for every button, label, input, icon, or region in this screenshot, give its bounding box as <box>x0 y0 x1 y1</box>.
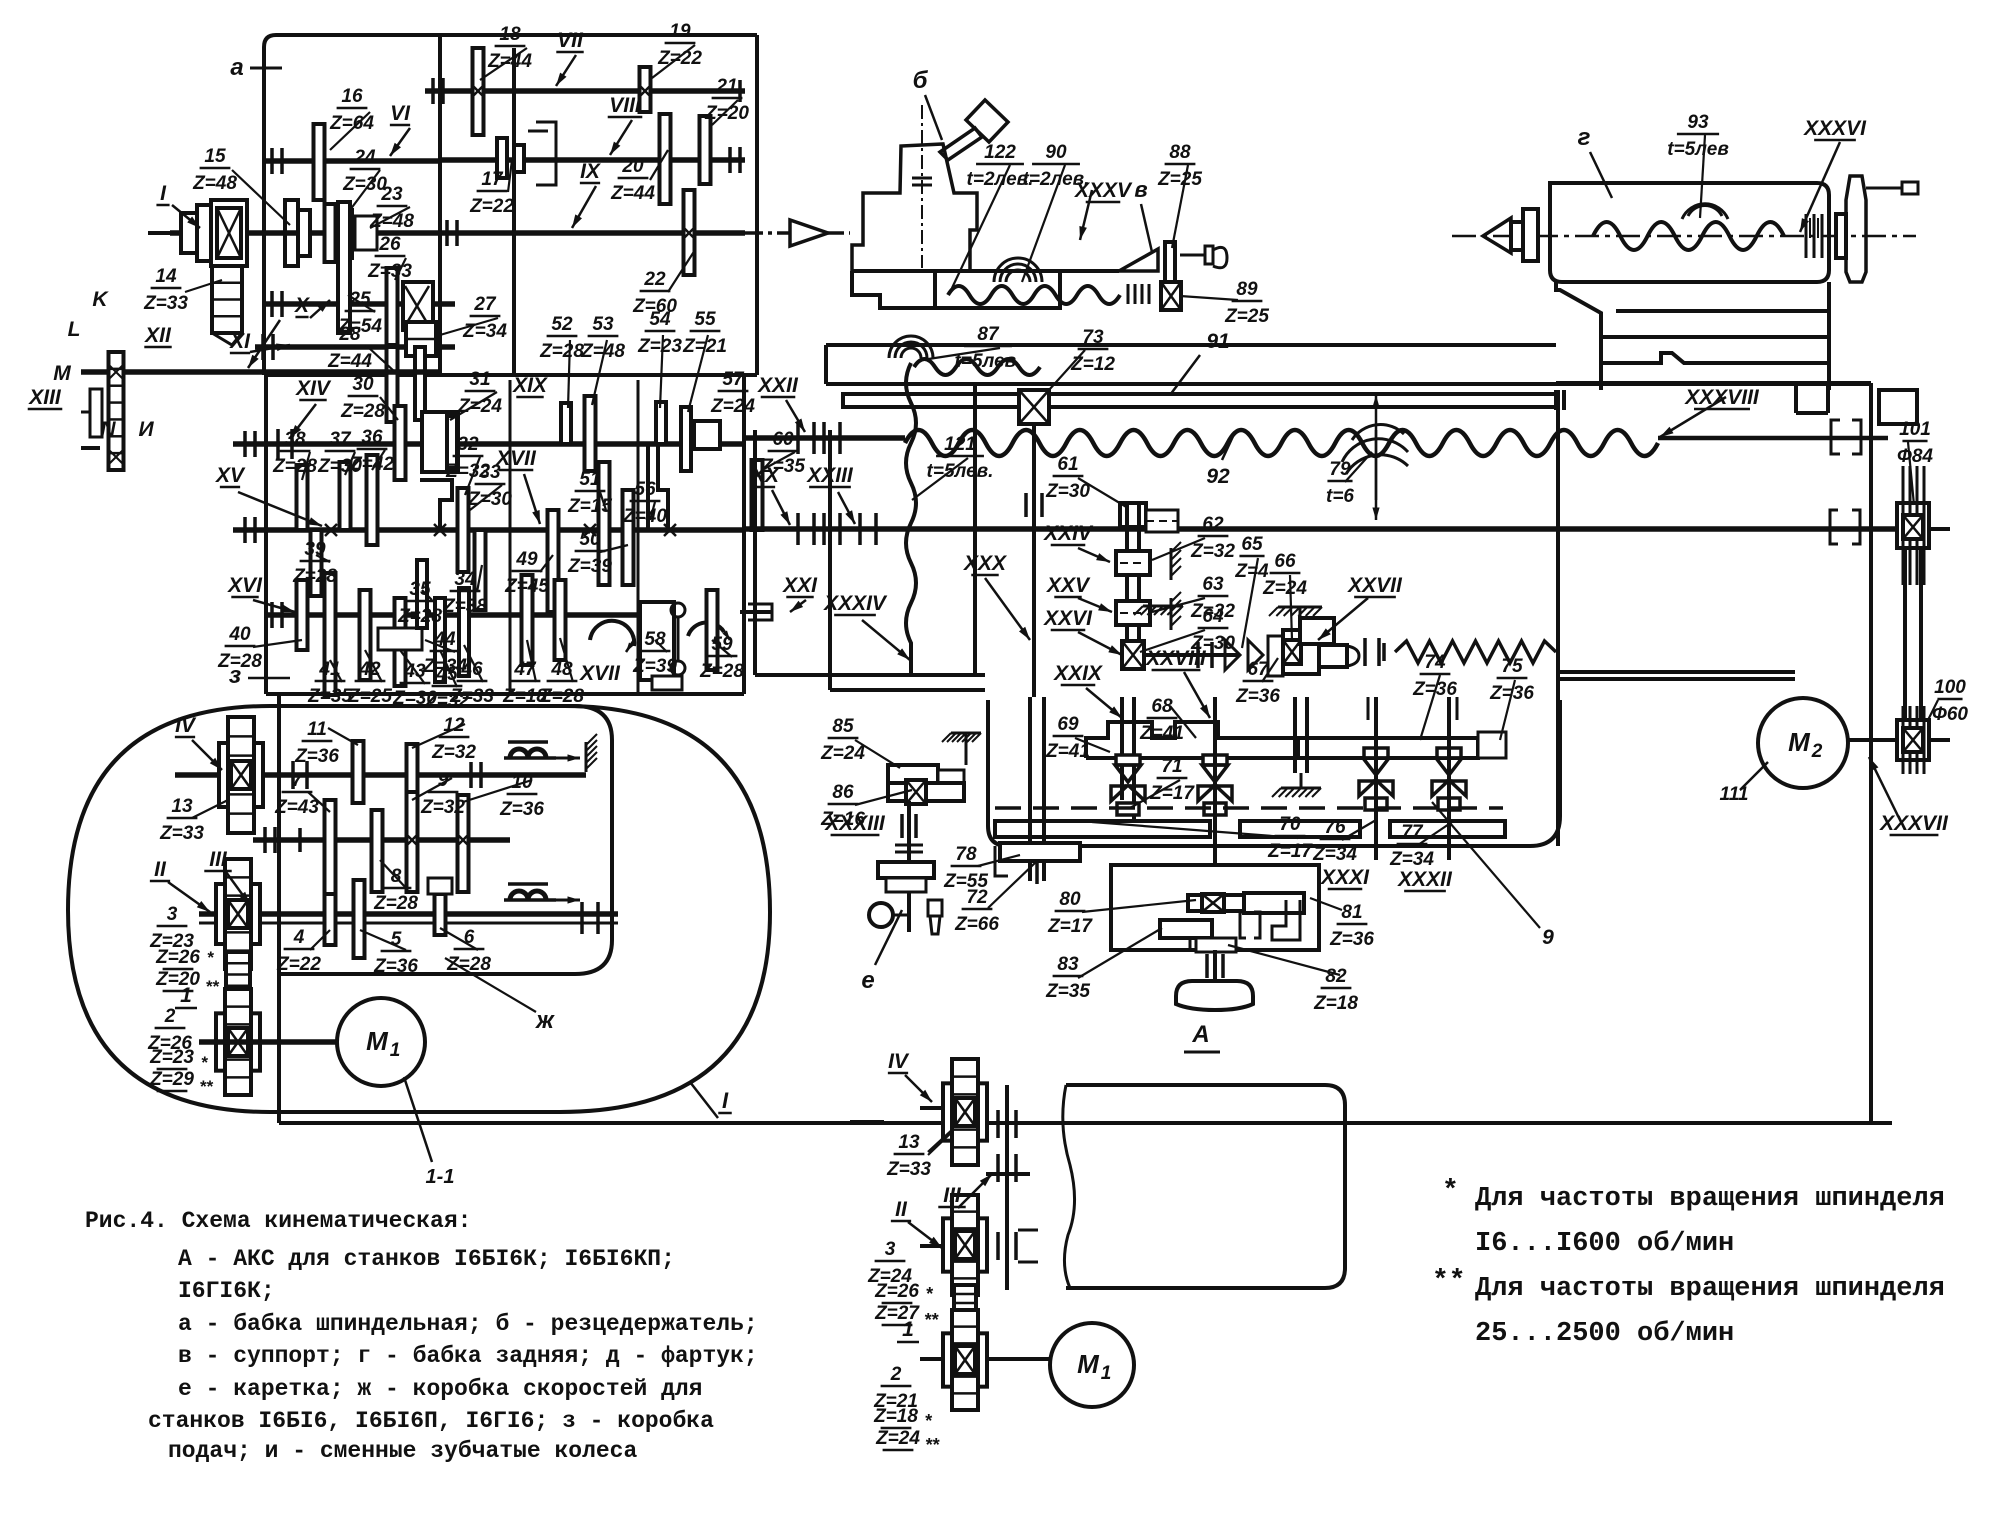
label leader 5 <box>508 160 512 192</box>
label leader 64 <box>1908 442 1914 505</box>
svg-text:t=5лев: t=5лев <box>1667 139 1729 160</box>
svg-text:Z=25: Z=25 <box>1224 306 1269 327</box>
svg-text:51: 51 <box>579 469 600 490</box>
shaft label XXXI <box>1320 866 1370 889</box>
label 76 Z=34 <box>1312 817 1357 865</box>
label leader 81 <box>988 862 1036 908</box>
svg-text:Z=24: Z=24 <box>1262 578 1307 599</box>
label leader 12 <box>440 318 498 335</box>
gear 37 Z=30 <box>340 462 351 530</box>
pulley 101 F84 <box>1871 466 1950 585</box>
svg-text:XXII: XXII <box>757 374 799 397</box>
clutch cones 64 <box>1225 640 1263 670</box>
shaft label XXXV <box>1074 179 1133 202</box>
shaft label XXI <box>782 574 818 597</box>
svg-text:XXXVII: XXXVII <box>1879 812 1949 835</box>
svg-text:VIII: VIII <box>609 94 642 117</box>
svg-text:XI: XI <box>229 330 251 353</box>
label leader 31 <box>540 555 553 572</box>
svg-text:а: а <box>230 54 243 81</box>
svg-text:Z=30: Z=30 <box>1045 481 1090 502</box>
label 48 Z=28 <box>539 659 584 707</box>
label 19 Z=22 <box>657 21 702 69</box>
svg-text:И: И <box>138 418 154 441</box>
svg-text:XIII: XIII <box>28 386 62 409</box>
saddle band 91 <box>826 345 1871 384</box>
svg-text:121: 121 <box>944 434 976 455</box>
gear 62 Z=32 <box>1116 551 1150 575</box>
svg-text:52: 52 <box>551 314 573 335</box>
svg-text:XVI: XVI <box>227 574 263 597</box>
shaft label XXVI <box>1043 607 1093 630</box>
svg-text:1: 1 <box>1101 1363 1112 1384</box>
shaft label N <box>100 418 116 441</box>
unit XXVII assembly <box>1268 618 1359 676</box>
label 60 Z=35 <box>760 429 805 477</box>
cross screw 87 wave <box>914 359 1040 375</box>
support "в" wedge <box>935 249 1158 308</box>
gear 53 Z=48 <box>585 396 596 471</box>
label 58 Z=39 <box>632 629 677 677</box>
label leader 51 <box>380 860 406 888</box>
svg-text:XX: XX <box>750 464 781 487</box>
label leader 47 <box>192 800 228 818</box>
label leader 11 <box>348 295 375 312</box>
label 49 Z=45 <box>504 549 549 597</box>
svg-text:XII: XII <box>144 324 172 347</box>
label leader 74 <box>1500 680 1515 740</box>
svg-text:80: 80 <box>1059 889 1081 910</box>
svg-text:XXIV: XXIV <box>1043 522 1094 545</box>
svg-text:XXXVIII: XXXVIII <box>1684 386 1760 409</box>
label 45 Z=32 <box>424 664 469 712</box>
label б <box>913 67 942 140</box>
svg-text:61: 61 <box>1057 454 1078 475</box>
gear 86 Z=16 xbox <box>888 780 964 804</box>
svg-text:е - каретка; ж - коробка скоро: е - каретка; ж - коробка скоростей для <box>178 1376 703 1402</box>
svg-text:XXXII: XXXII <box>1397 868 1453 891</box>
shaft XIV-XIX <box>233 441 744 447</box>
gear 8 Z=28 <box>372 810 383 892</box>
label leader 7 <box>350 170 380 210</box>
gear 45 Z=32 <box>435 598 445 682</box>
label leader 35 <box>330 660 342 682</box>
shaft label M <box>53 362 71 385</box>
gear 44 Z=34 sleeve <box>378 628 422 650</box>
label 3 stack oval <box>149 904 220 996</box>
leader arrow 24 <box>1800 142 1840 232</box>
shaft VIII <box>440 157 745 163</box>
carriage bottom line <box>755 430 985 675</box>
svg-text:**: ** <box>205 977 220 996</box>
svg-text:Z=38: Z=38 <box>442 596 487 617</box>
quill screw 93 wave <box>1593 222 1784 250</box>
label leader 78 <box>855 790 912 805</box>
footnote line 2 <box>1475 1229 1734 1259</box>
label leader 42 <box>560 638 573 682</box>
leader arrow 19 <box>1078 632 1122 655</box>
svg-text:74: 74 <box>1424 652 1446 673</box>
svg-text:подач; и - сменные зубчатые ко: подач; и - сменные зубчатые колеса <box>168 1438 637 1464</box>
apron lower bar <box>995 821 1505 837</box>
svg-text:83: 83 <box>1057 954 1079 975</box>
svg-text:14: 14 <box>155 266 177 287</box>
shaft XXIII feed rod <box>744 526 1920 532</box>
unit 27 Z=34 <box>406 322 436 356</box>
vertical shaft 1449 <box>1449 697 1457 860</box>
label 88 Z=25 <box>1157 142 1202 190</box>
leader arrow 1 <box>248 320 280 368</box>
label leader 69 <box>1140 630 1205 652</box>
svg-text:37: 37 <box>329 429 352 450</box>
label 12 Z=32 <box>431 715 476 763</box>
label leader 56 <box>1022 165 1065 282</box>
bearing IV x <box>471 762 481 788</box>
svg-text:XXXI: XXXI <box>1320 866 1370 889</box>
label a <box>230 54 282 81</box>
shaft XXX dashed <box>995 806 1503 810</box>
svg-text:в: в <box>1134 177 1147 202</box>
svg-text:3: 3 <box>885 1239 896 1260</box>
label 5 Z=36 <box>373 929 418 977</box>
svg-text:XXI: XXI <box>782 574 818 597</box>
toolpost handle <box>940 100 1008 160</box>
svg-text:Z=24: Z=24 <box>820 743 865 764</box>
label leader 50 <box>463 780 532 802</box>
label 73 Z=12 <box>1070 327 1115 375</box>
svg-text:Z=35: Z=35 <box>307 686 352 707</box>
svg-text:26: 26 <box>378 234 401 255</box>
overrun clutch lower <box>504 884 580 904</box>
label leader 41 <box>527 640 536 682</box>
bearing brackets XXXVIII <box>1831 420 1861 454</box>
label leader 60 <box>1040 350 1085 400</box>
label leader 40 <box>425 640 455 652</box>
svg-text:Z=28: Z=28 <box>340 401 385 422</box>
leader arrow 8 <box>250 344 290 353</box>
nut arcs 93 <box>1682 204 1728 219</box>
label 21 Z=20 <box>704 76 749 124</box>
wall hatch right of 63 <box>1171 592 1181 630</box>
label 2 stack oval <box>147 1006 214 1096</box>
svg-text:70: 70 <box>1279 814 1301 835</box>
clutch A <box>1240 912 1260 938</box>
label leader 84 <box>1418 822 1452 845</box>
chain column 1-2-3 <box>226 952 250 1042</box>
bearing XVI left <box>272 602 282 628</box>
hatch ground below 67 <box>1272 697 1321 797</box>
svg-text:36: 36 <box>361 427 383 448</box>
gear 18 Z=44 <box>472 48 484 135</box>
svg-text:122: 122 <box>984 142 1016 163</box>
svg-text:17: 17 <box>481 169 504 190</box>
gear 50 Z=39 <box>623 490 634 585</box>
svg-text:75: 75 <box>1501 656 1523 677</box>
tailstock base <box>1556 282 1829 390</box>
svg-text:100: 100 <box>1934 677 1966 698</box>
leader arrow 30 <box>958 1174 992 1208</box>
svg-text:**: ** <box>199 1077 214 1096</box>
shaft label III <box>938 1184 965 1207</box>
shaft XVI <box>264 612 638 618</box>
caption line 8 <box>168 1438 637 1464</box>
svg-text:Z=12: Z=12 <box>1070 354 1115 375</box>
inner gearbox "ж" rounded box <box>279 706 612 974</box>
shaft V input <box>148 230 440 236</box>
label 38 Z=28 <box>272 429 317 477</box>
label leader 44 <box>712 640 732 657</box>
label leader 65 <box>1928 700 1938 720</box>
label leader 43 <box>655 640 667 652</box>
svg-text:60: 60 <box>772 429 794 450</box>
gear 2 unit <box>216 989 260 1095</box>
label leader 52 <box>310 930 330 950</box>
svg-text:XXVI: XXVI <box>1043 607 1093 630</box>
svg-text:88: 88 <box>1169 142 1191 163</box>
label leader 22 <box>345 452 355 475</box>
label leader 75 <box>1170 706 1196 738</box>
svg-text:II: II <box>154 858 167 881</box>
shaft label XXXVII <box>1879 812 1949 835</box>
label leader 20 <box>688 335 708 412</box>
svg-text:62: 62 <box>1202 514 1224 535</box>
gear 12 Z=32 <box>407 744 418 800</box>
motor M2 <box>1758 698 1848 788</box>
shaft label I <box>156 182 169 205</box>
svg-text:Z=24: Z=24 <box>710 396 755 417</box>
label 10 Z=36 <box>499 772 544 820</box>
svg-text:I: I <box>722 1088 729 1113</box>
leader arrow 29 <box>905 1075 932 1102</box>
label 55 Z=21 <box>682 309 727 357</box>
svg-text:93: 93 <box>1687 112 1709 133</box>
gear II unit bottom <box>943 1195 987 1295</box>
X mark XVII a <box>584 524 596 536</box>
X mark XVII b <box>664 524 676 536</box>
gear 30 Z=28 <box>395 406 406 480</box>
bearing shaft IX left <box>447 220 457 246</box>
shaft label XXVII <box>1347 574 1403 597</box>
cross screw 122/90 wave <box>948 286 1120 304</box>
label 26 Z=33 <box>367 234 412 282</box>
vertical shaft XXX upper <box>1026 424 1042 697</box>
label 42 Z=25 <box>347 659 392 707</box>
label leader 59 <box>922 348 1000 360</box>
shaft label XXXIII <box>824 812 886 835</box>
change gear box <box>1063 1085 1345 1288</box>
svg-text:15: 15 <box>204 146 226 167</box>
bearing marks feed rod right <box>1830 510 1860 544</box>
gear 83 Z=35 <box>1160 920 1212 950</box>
coupling XXII <box>798 422 840 454</box>
svg-text:XV: XV <box>215 464 246 487</box>
speed gearbox oval "I" outline <box>68 706 770 1112</box>
bearing shaft XI <box>263 334 273 360</box>
label 72 Z=66 <box>954 887 999 935</box>
shaft XXIX vertical <box>1122 697 1134 820</box>
label 4 Z=22 <box>276 927 321 975</box>
bearing block top right <box>1879 390 1917 424</box>
label 83 Z=35 <box>1045 954 1090 1002</box>
svg-text:2: 2 <box>1811 741 1823 762</box>
bracket 72 <box>995 846 1008 876</box>
shaft label XVII <box>495 447 537 470</box>
motor M1 in oval <box>337 998 425 1086</box>
bearing X-box 14 area <box>211 200 247 266</box>
svg-text:станков I6БI6, I6БI6П, I6ГI6;: станков I6БI6, I6БI6П, I6ГI6; з - коробк… <box>148 1408 714 1434</box>
svg-text:XXIX: XXIX <box>1053 662 1104 685</box>
vertical gear shaft bottom <box>998 1085 1038 1290</box>
svg-text:Z=28: Z=28 <box>373 893 418 914</box>
gear 14 Z=33 column <box>212 266 242 345</box>
svg-text:t=6: t=6 <box>1326 486 1354 507</box>
shaft label XXV <box>1046 574 1091 597</box>
shaft X <box>264 301 455 307</box>
label 53 Z=48 <box>580 314 625 362</box>
feed box "з" outline <box>266 375 744 694</box>
svg-text:19: 19 <box>669 21 691 42</box>
shaft label XXXVIII <box>1684 386 1760 409</box>
svg-text:Z=28: Z=28 <box>292 566 337 587</box>
label 22 Z=60 <box>632 269 677 317</box>
label 78 Z=55 <box>943 844 988 892</box>
leader arrow 4 <box>556 55 576 86</box>
svg-text:XXVIII: XXVIII <box>1145 647 1207 670</box>
quill spline <box>1806 214 1822 258</box>
label leader 87 <box>1078 928 1162 978</box>
svg-text:55: 55 <box>694 309 716 330</box>
label 100 Ф60 <box>1932 677 1968 725</box>
svg-text:M: M <box>1788 727 1811 757</box>
footnote star 1 <box>1442 1176 1945 1214</box>
X mark XV a <box>325 524 337 536</box>
label 82 Z=18 <box>1313 966 1358 1014</box>
svg-text:XXXIV: XXXIV <box>823 592 888 615</box>
svg-text:92: 92 <box>1206 465 1230 488</box>
svg-text:IX: IX <box>580 160 602 183</box>
caption line 6 <box>178 1376 703 1402</box>
label 56 Z=40 <box>622 479 667 527</box>
gear 63 Z=32 <box>1116 601 1150 625</box>
shaft label XIII <box>28 386 63 409</box>
leader arrow 14 <box>838 492 855 524</box>
gear 26 Z=33 with clutch <box>387 268 434 345</box>
svg-text:101: 101 <box>1899 419 1931 440</box>
label 87 t=5лев. <box>955 324 1022 372</box>
leader arrow 31 <box>908 1222 942 1248</box>
svg-text:Z=43: Z=43 <box>274 797 319 818</box>
gear 51 Z=15 <box>599 462 610 585</box>
rack bar <box>843 390 1564 410</box>
svg-text:72: 72 <box>966 887 988 908</box>
gear 19 Z=22 <box>639 67 651 112</box>
caption line 7 <box>148 1408 714 1434</box>
label 79 t=6 <box>1326 459 1354 507</box>
gear 73 Z=12 xbox <box>1019 390 1049 424</box>
gear 38 Z=28 <box>297 465 308 530</box>
svg-text:82: 82 <box>1325 966 1347 987</box>
gear 40 Z=28 <box>297 580 308 650</box>
headstock/feedbox boundary y=375 <box>264 373 757 377</box>
label е <box>861 910 902 994</box>
leadscrew straight XXXVIII <box>1658 436 1888 441</box>
label leader 10 <box>185 280 222 292</box>
shaft label III <box>204 848 231 871</box>
gear 31 Z=24 block <box>422 412 458 472</box>
svg-text:Z=36: Z=36 <box>499 799 544 820</box>
svg-text:42: 42 <box>358 659 381 680</box>
label leader 70 <box>1242 558 1258 648</box>
svg-text:Z=22: Z=22 <box>657 48 702 69</box>
label 57 Z=24 <box>710 369 755 417</box>
svg-text:XXV: XXV <box>1046 574 1091 597</box>
svg-text:Z=36: Z=36 <box>1235 686 1280 707</box>
gear 9 Z=32 <box>406 792 418 892</box>
svg-text:78: 78 <box>955 844 977 865</box>
bearing 89 Z=25 xbox <box>1161 282 1181 310</box>
gear 41 Z=35 <box>325 573 336 695</box>
gear 80 Z=17 xbox <box>1188 894 1244 912</box>
label 61 Z=30 <box>1045 454 1090 502</box>
svg-text:Z=33: Z=33 <box>143 293 188 314</box>
svg-text:Z=66: Z=66 <box>954 914 999 935</box>
gear 22 Z=60 <box>683 190 695 275</box>
leader arrow 25 <box>1660 397 1726 437</box>
label 65 Z=4 <box>1234 534 1269 582</box>
leader 111 <box>1720 762 1768 805</box>
svg-text:Z=44: Z=44 <box>610 183 655 204</box>
leader arrow 16 <box>862 620 910 660</box>
svg-text:2: 2 <box>164 1006 176 1027</box>
long bottom wire y=1123 <box>279 1121 1892 1125</box>
svg-text:Z=23: Z=23 <box>149 1047 194 1068</box>
bearing XIV left <box>245 429 292 459</box>
label leader 63 <box>1700 135 1705 218</box>
label leader 89 <box>928 1132 952 1155</box>
svg-text:Ф60: Ф60 <box>1932 704 1968 725</box>
svg-text:X: X <box>294 294 311 317</box>
leader arrow 7 <box>310 300 330 318</box>
svg-text:Z=39: Z=39 <box>567 556 612 577</box>
svg-text:73: 73 <box>1082 327 1104 348</box>
svg-text:64: 64 <box>1202 606 1224 627</box>
label leader 8 <box>370 207 410 228</box>
label leader 57 <box>1172 165 1188 248</box>
reverse unit 58 Z=39 <box>590 602 685 680</box>
label leader 29 <box>762 452 795 470</box>
gear IV unit bottom <box>943 1059 987 1165</box>
hatch ground above XXVII <box>1269 607 1322 618</box>
svg-text:L: L <box>68 318 81 341</box>
svg-text:39: 39 <box>304 539 326 560</box>
svg-text:*: * <box>925 1284 933 1304</box>
svg-text:Z=26: Z=26 <box>874 1281 919 1302</box>
svg-text:Z=24: Z=24 <box>457 396 502 417</box>
shaft IX <box>440 230 745 236</box>
gear 15 Z=48 flange <box>285 200 310 266</box>
gear 16 Z=64 <box>314 124 325 200</box>
handwheel e <box>869 862 942 934</box>
svg-text:XXXV: XXXV <box>1074 179 1133 202</box>
svg-text:III: III <box>209 848 228 871</box>
shaft XXVI horizontal <box>1144 642 1240 668</box>
shaft label XVII <box>579 662 621 685</box>
label 3 stack bottom <box>867 1239 939 1330</box>
svg-text:65: 65 <box>1241 534 1263 555</box>
label 31 Z=24 <box>457 369 502 417</box>
label 90 t=2лев. <box>1023 142 1090 190</box>
label 33 Z=30 <box>467 462 512 510</box>
